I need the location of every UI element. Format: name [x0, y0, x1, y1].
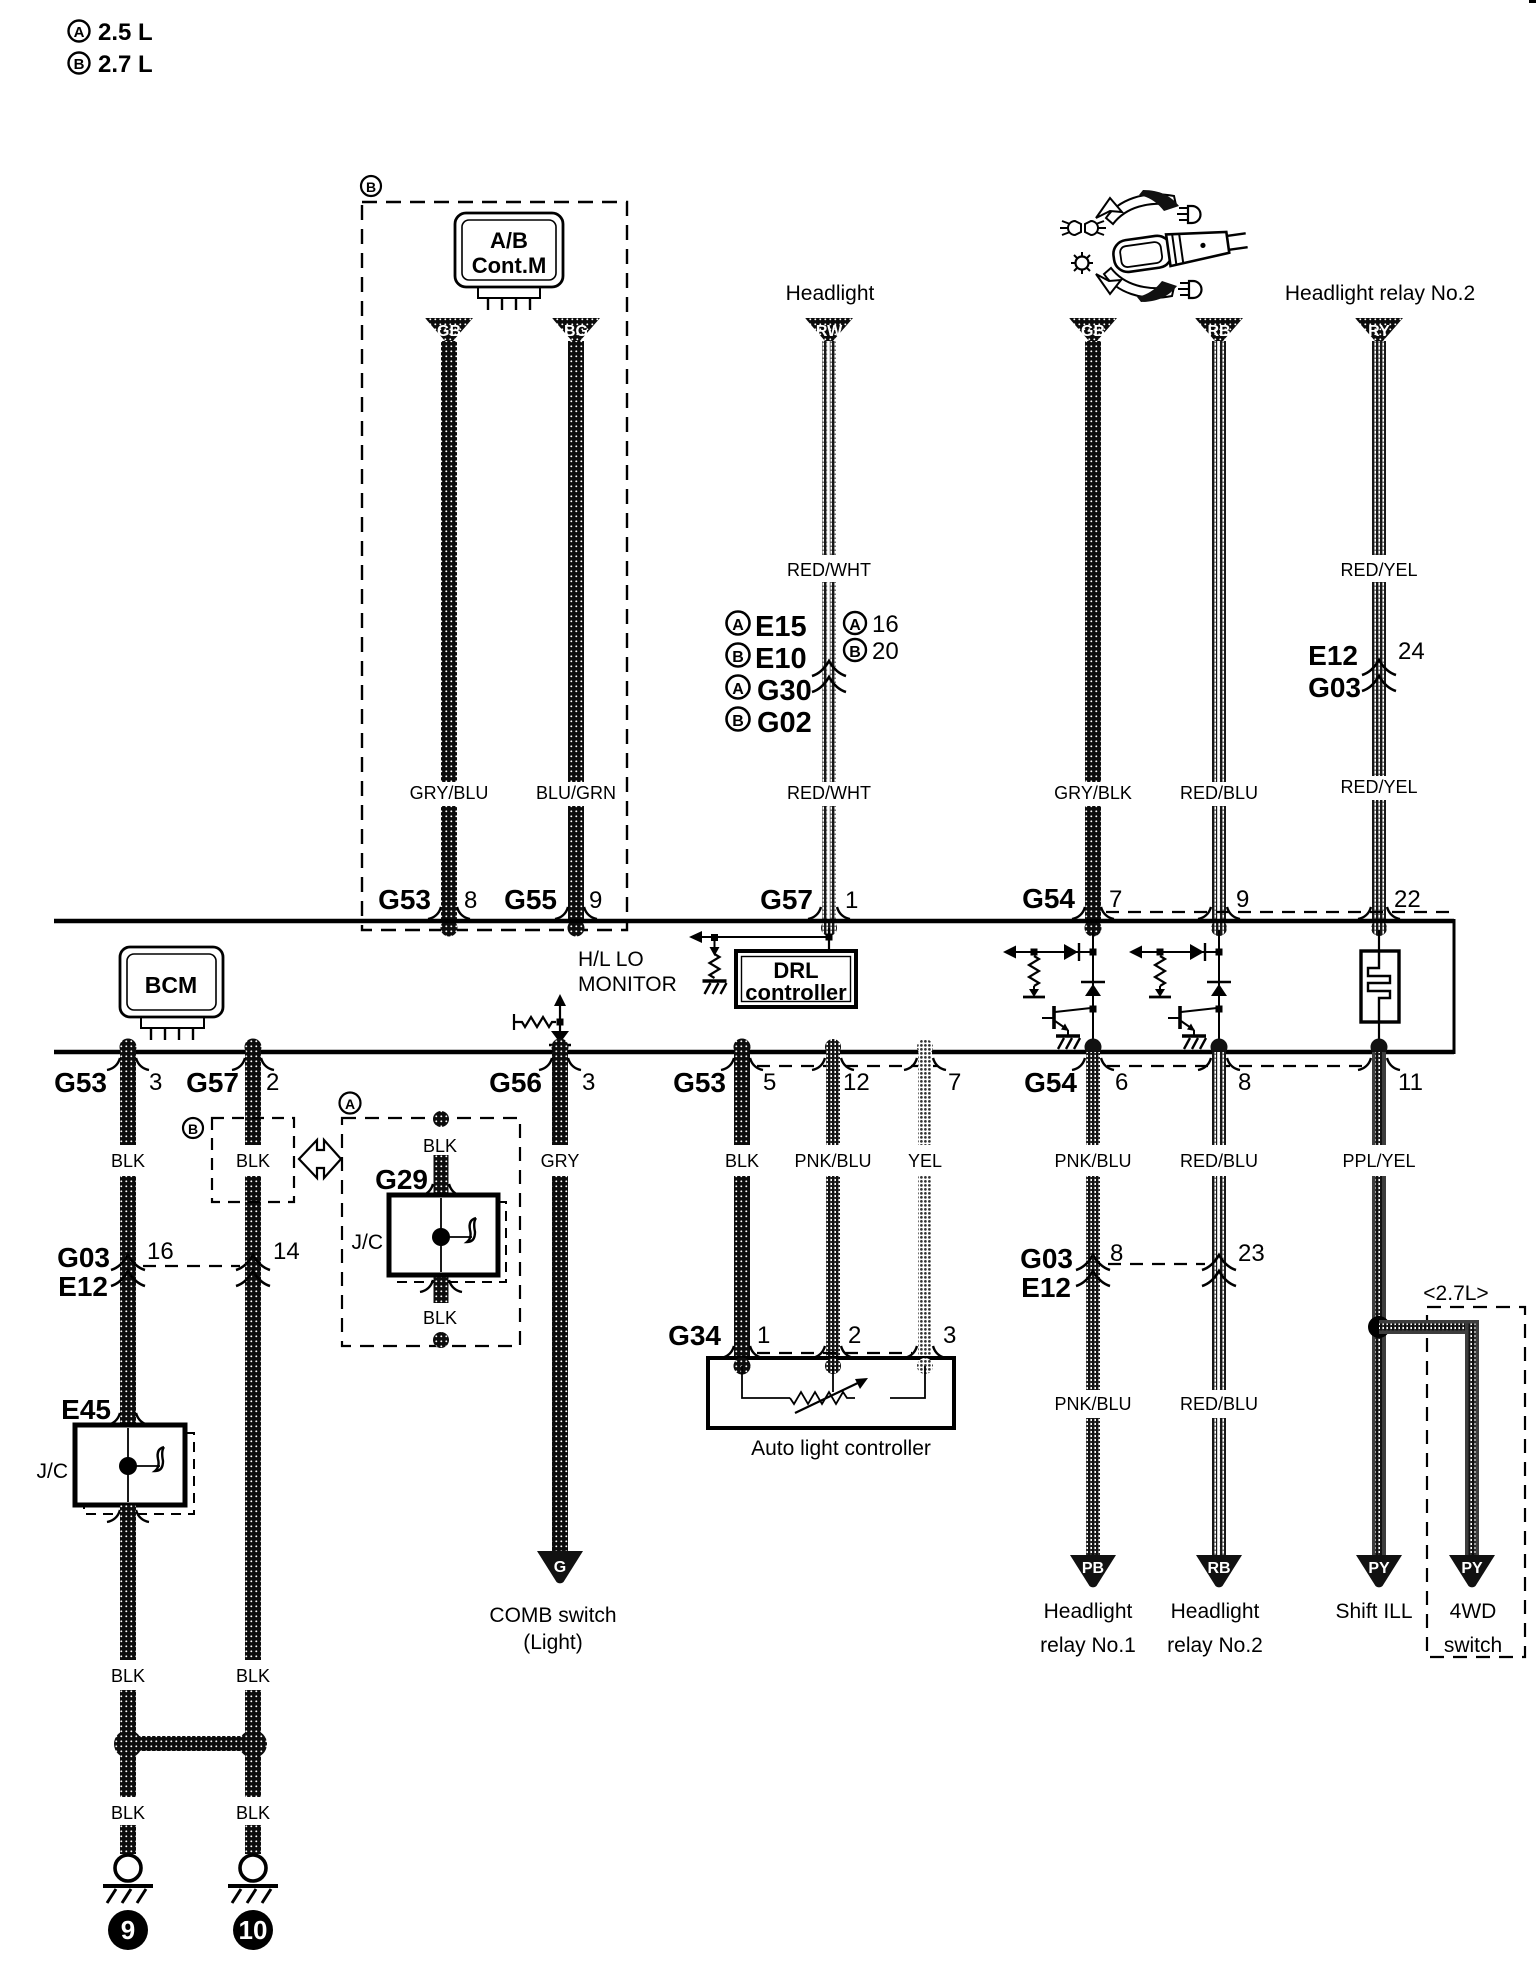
- junction: [1031, 949, 1038, 956]
- svg-text:(Light): (Light): [523, 1631, 583, 1654]
- hooks E45 entry: [107, 1413, 149, 1425]
- circle B marker: [361, 176, 381, 196]
- svg-text:G34: G34: [668, 1320, 721, 1351]
- wire GB2 (GRY/BLK) from comb switch: [1069, 318, 1117, 937]
- svg-text:Cont.M: Cont.M: [472, 253, 547, 278]
- svg-text:A: A: [345, 1096, 355, 1112]
- svg-text:B: B: [366, 179, 376, 195]
- connector ref B E10: [727, 643, 807, 675]
- svg-text:3: 3: [149, 1069, 162, 1096]
- svg-text:BLK: BLK: [725, 1151, 759, 1171]
- wire YEL pin 7: [917, 1039, 933, 1362]
- wire PPL/YEL pin 11: [1372, 1052, 1386, 1555]
- svg-text:23: 23: [1238, 1240, 1265, 1267]
- hooks E45 exit: [107, 1510, 149, 1522]
- connector ref G03/E12 with pins 16 14: [57, 1238, 300, 1302]
- svg-text:9: 9: [121, 1915, 135, 1945]
- svg-text:RY: RY: [1368, 323, 1390, 340]
- svg-text:9: 9: [1236, 886, 1249, 913]
- svg-text:YEL: YEL: [908, 1151, 942, 1171]
- dashed connector boundary G54/E12 top: [1106, 911, 1452, 913]
- wire G56 feed: [559, 1004, 561, 1052]
- svg-text:GRY/BLU: GRY/BLU: [410, 783, 489, 803]
- node G57 pin 1: [760, 884, 858, 919]
- svg-text:G: G: [554, 1559, 566, 1576]
- svg-text:RW: RW: [816, 323, 843, 340]
- svg-text:A/B: A/B: [490, 228, 528, 253]
- svg-text:B: B: [74, 56, 85, 73]
- svg-text:5: 5: [763, 1069, 776, 1096]
- wire RED/BLU G54-8: [1212, 1052, 1226, 1555]
- svg-text:GB: GB: [1081, 323, 1105, 340]
- harness chevrons wire2: [236, 1255, 270, 1286]
- wire BLK below E45: [120, 1505, 136, 1660]
- svg-text:E12: E12: [58, 1271, 108, 1302]
- node G55 pin 9: [504, 884, 602, 919]
- beam icon lower: [1189, 281, 1202, 298]
- svg-text:3: 3: [943, 1322, 956, 1349]
- wire BLK wire2 lower: [245, 1690, 261, 1797]
- branch wire to 4WD switch: [1379, 1320, 1479, 1555]
- svg-text:11: 11: [1398, 1069, 1423, 1096]
- svg-text:A: A: [732, 681, 744, 698]
- wire RY (RED/YEL) from headlight relay No.2: [1355, 318, 1403, 936]
- svg-text:G54: G54: [1024, 1067, 1077, 1098]
- connector G34 pins 1 2 3: [668, 1320, 956, 1353]
- dashed box B around BLK: [212, 1118, 294, 1202]
- bus top rail: [54, 919, 1454, 924]
- svg-text:G03: G03: [57, 1242, 110, 1273]
- svg-text:BCM: BCM: [145, 972, 197, 998]
- combination switch stalk illustration: [1060, 190, 1249, 302]
- ground point 9: [103, 1855, 153, 1950]
- svg-text:Auto light controller: Auto light controller: [751, 1437, 931, 1460]
- diode D3: [551, 1031, 569, 1043]
- wire BLK to ground 9: [120, 1825, 136, 1854]
- sun icon: [1076, 257, 1089, 270]
- ground: [1056, 1036, 1080, 1049]
- wire BLK G53-3 (left) upper: [120, 1039, 137, 1425]
- node G54 pin 7: [1022, 883, 1122, 919]
- svg-text:24: 24: [1398, 638, 1425, 665]
- junction connector G29 J/C: [352, 1195, 507, 1282]
- monitor sense branch: arrow, resistor R, ground: [689, 931, 829, 994]
- svg-text:PPL/YEL: PPL/YEL: [1342, 1151, 1415, 1171]
- svg-text:PNK/BLU: PNK/BLU: [1054, 1151, 1131, 1171]
- svg-text:12: 12: [843, 1069, 870, 1096]
- module auto light controller: [708, 1358, 954, 1461]
- wire relay output: [1092, 930, 1094, 1048]
- resistor R1: [1029, 956, 1039, 986]
- connector ref G03/E12 pins 8 23: [1020, 1240, 1265, 1303]
- svg-text:14: 14: [273, 1238, 300, 1265]
- connector ref B G02: [727, 707, 812, 739]
- svg-text:GRY: GRY: [541, 1151, 580, 1171]
- svg-text:1: 1: [845, 887, 858, 914]
- svg-text:3: 3: [582, 1069, 595, 1096]
- svg-text:16: 16: [147, 1238, 174, 1265]
- svg-text:PB: PB: [1082, 1560, 1104, 1577]
- svg-text:BLK: BLK: [236, 1803, 270, 1823]
- svg-text:RB: RB: [1207, 323, 1230, 340]
- svg-text:E15: E15: [755, 611, 807, 643]
- svg-text:9: 9: [589, 887, 602, 914]
- dashed box A around G29 J/C: [342, 1118, 520, 1346]
- wire monitor tap: [691, 936, 829, 938]
- relay driver circuit 1 (headlight relay No.1): [1003, 930, 1105, 1056]
- svg-text:RED/YEL: RED/YEL: [1340, 777, 1417, 797]
- svg-text:10: 10: [239, 1915, 268, 1945]
- svg-text:Headlight: Headlight: [786, 282, 875, 305]
- svg-text:RED/BLU: RED/BLU: [1180, 1394, 1258, 1414]
- svg-text:PY: PY: [1368, 1560, 1390, 1577]
- svg-text:2.5 L: 2.5 L: [98, 19, 153, 46]
- svg-text:2.7 L: 2.7 L: [98, 51, 153, 78]
- svg-text:B: B: [732, 649, 744, 666]
- svg-text:controller: controller: [745, 980, 847, 1005]
- G56 pull-up: arrow, resistor, diode: [514, 994, 571, 1052]
- svg-text:RED/WHT: RED/WHT: [787, 783, 871, 803]
- svg-text:G03: G03: [1308, 672, 1361, 703]
- svg-text:G02: G02: [757, 707, 812, 739]
- branch junction on PPL/YEL: [1368, 1316, 1390, 1338]
- dashed boundary G53 row: [757, 1065, 938, 1067]
- svg-text:22: 22: [1394, 886, 1421, 913]
- wire RW (RED/WHT) from Headlight: [805, 318, 853, 936]
- junction: [711, 934, 718, 941]
- svg-text:G55: G55: [504, 884, 557, 915]
- svg-text:relay No.2: relay No.2: [1167, 1634, 1263, 1657]
- svg-text:BLU/GRN: BLU/GRN: [536, 783, 616, 803]
- dashed boundary G54 row: [1107, 1065, 1365, 1067]
- wire GB (GRY/BLU) from A/B Cont.M: [425, 318, 473, 937]
- destination arrow PB headlight relay No.1: [1040, 1555, 1136, 1657]
- svg-text:PNK/BLU: PNK/BLU: [1054, 1394, 1131, 1414]
- wire BLK G57-2 upper: [245, 1039, 262, 1661]
- svg-text:8: 8: [464, 887, 477, 914]
- connector ref A G30: [727, 675, 812, 707]
- svg-text:20: 20: [872, 638, 899, 665]
- relay driver circuit 2 (headlight relay No.2): [1129, 930, 1231, 1056]
- svg-text:J/C: J/C: [37, 1460, 69, 1483]
- svg-text:4WD: 4WD: [1450, 1600, 1497, 1623]
- svg-text:G29: G29: [375, 1164, 428, 1195]
- svg-text:G54: G54: [1022, 883, 1075, 914]
- label H/L LO MONITOR: [578, 948, 677, 996]
- page corner mark: [1529, 0, 1536, 3]
- resistor G56 pull-up: [513, 1014, 515, 1030]
- svg-text:E12: E12: [1021, 1272, 1071, 1303]
- svg-text:G53: G53: [673, 1067, 726, 1098]
- svg-text:PY: PY: [1461, 1560, 1483, 1577]
- tie crossbar between grounds: [114, 1730, 267, 1758]
- svg-text:GB: GB: [437, 323, 461, 340]
- ground: [703, 981, 727, 994]
- hooks G29 entry: [420, 1184, 462, 1196]
- svg-text:G56: G56: [489, 1067, 542, 1098]
- connector ref A E15: [727, 611, 807, 643]
- svg-text:Headlight: Headlight: [1044, 1600, 1133, 1623]
- svg-text:B: B: [849, 644, 861, 661]
- wire PNK/BLU pin 12: [825, 1039, 841, 1362]
- svg-text:J/C: J/C: [352, 1231, 384, 1254]
- destination arrow PY shift ILL: [1335, 1555, 1412, 1623]
- node G54 pin 9: [1198, 886, 1249, 919]
- node G57 pin 2: [186, 1067, 279, 1098]
- svg-text:G30: G30: [757, 675, 812, 707]
- junction node G54-6: [1085, 1039, 1102, 1056]
- svg-text:BLK: BLK: [111, 1666, 145, 1686]
- svg-text:16: 16: [872, 611, 899, 638]
- destination arrow PY 4WD switch: [1444, 1555, 1502, 1657]
- junction connector E45 J/C: [37, 1425, 195, 1514]
- svg-text:1: 1: [757, 1322, 770, 1349]
- junction: [1090, 1006, 1097, 1013]
- wire RB (RED/BLU) from comb switch: [1195, 318, 1243, 936]
- legend circle A 2.5 L: [69, 19, 153, 46]
- ground point 10: [228, 1855, 278, 1950]
- G29 bottom stub wire BLK: [433, 1277, 449, 1348]
- svg-text:RB: RB: [1207, 1560, 1230, 1577]
- resistor monitor pull-down: [710, 954, 720, 978]
- junction: [557, 1019, 564, 1026]
- node G56 pin 3: [489, 1067, 595, 1098]
- svg-text:H/L LO: H/L LO: [578, 948, 644, 971]
- dashed enclosure B: [362, 202, 627, 930]
- svg-text:6: 6: [1115, 1069, 1128, 1096]
- connector ref E12 / G03 with pin 24: [1308, 638, 1425, 703]
- svg-text:E10: E10: [755, 643, 807, 675]
- svg-text:relay No.1: relay No.1: [1040, 1634, 1136, 1657]
- svg-text:GRY/BLK: GRY/BLK: [1054, 783, 1132, 803]
- module DRL controller: [736, 951, 856, 1007]
- destination arrow RB headlight relay No.2: [1167, 1555, 1263, 1657]
- svg-text:A: A: [732, 617, 744, 634]
- svg-text:<2.7L>: <2.7L>: [1423, 1282, 1488, 1305]
- diode D1: [1064, 944, 1078, 960]
- hooks G57-2: [232, 1058, 274, 1070]
- hooks G56-3: [539, 1058, 581, 1070]
- svg-text:A: A: [849, 617, 861, 634]
- svg-text:G57: G57: [186, 1067, 239, 1098]
- svg-text:B: B: [188, 1121, 198, 1137]
- bus bottom rail: [54, 1050, 1454, 1055]
- svg-text:G53: G53: [378, 884, 431, 915]
- wire PNK/BLU G54-6: [1086, 1052, 1100, 1555]
- svg-text:Headlight relay No.2: Headlight relay No.2: [1285, 282, 1475, 305]
- diode D2 clamp: [1081, 981, 1105, 983]
- hooks G29 exit: [420, 1280, 462, 1292]
- svg-text:RED/BLU: RED/BLU: [1180, 783, 1258, 803]
- svg-text:2: 2: [848, 1322, 861, 1349]
- svg-text:PNK/BLU: PNK/BLU: [794, 1151, 871, 1171]
- svg-text:MONITOR: MONITOR: [578, 973, 677, 996]
- wire BG (BLU/GRN) from A/B Cont.M: [552, 318, 600, 937]
- svg-text:E45: E45: [61, 1394, 111, 1425]
- destination arrow G to COMB switch: [489, 1551, 616, 1654]
- node G54 pin 6: [1024, 1067, 1128, 1098]
- legend circle B 2.7 L: [69, 51, 153, 78]
- svg-text:switch: switch: [1444, 1634, 1502, 1657]
- svg-text:BLK: BLK: [236, 1151, 270, 1171]
- svg-text:BLK: BLK: [111, 1151, 145, 1171]
- svg-text:COMB switch: COMB switch: [489, 1604, 616, 1627]
- svg-text:G53: G53: [54, 1067, 107, 1098]
- pin ref A 16: [844, 611, 899, 638]
- svg-text:RED/YEL: RED/YEL: [1340, 560, 1417, 580]
- harness chevrons wire1: [111, 1255, 145, 1286]
- svg-text:2: 2: [266, 1069, 279, 1096]
- svg-text:BLK: BLK: [423, 1136, 457, 1156]
- svg-text:G03: G03: [1020, 1243, 1073, 1274]
- transistor Q1: [1052, 1006, 1056, 1029]
- beam icon upper: [1188, 206, 1201, 223]
- G29 top stub wire BLK: [433, 1111, 449, 1195]
- svg-text:8: 8: [1238, 1069, 1251, 1096]
- circle B marker: [183, 1118, 203, 1138]
- svg-text:Shift ILL: Shift ILL: [1335, 1600, 1412, 1623]
- bus right edge: [1453, 919, 1456, 1054]
- wire BLK G53-5: [734, 1039, 751, 1363]
- svg-text:B: B: [732, 713, 744, 730]
- hooks G53-3: [107, 1058, 149, 1070]
- svg-text:Headlight: Headlight: [1171, 1600, 1260, 1623]
- svg-text:7: 7: [948, 1069, 961, 1096]
- svg-text:7: 7: [1109, 886, 1122, 913]
- junction: [1090, 949, 1097, 956]
- lever body: [1112, 223, 1249, 273]
- circle A marker: [340, 1093, 361, 1114]
- wire drive line: [1005, 951, 1093, 953]
- svg-text:E12: E12: [1308, 640, 1358, 671]
- svg-text:RED/WHT: RED/WHT: [787, 560, 871, 580]
- module U A/B Cont.M: [455, 213, 563, 310]
- svg-text:A: A: [74, 24, 85, 41]
- wire BLK to ground 10: [245, 1825, 261, 1854]
- wire BLK wire1 lower: [120, 1690, 136, 1797]
- pin ref B 20: [844, 638, 899, 665]
- svg-text:BG: BG: [564, 323, 588, 340]
- module BCM: [120, 947, 223, 1040]
- svg-text:BLK: BLK: [423, 1308, 457, 1328]
- illumination resistor element (shift ILL feed): [1361, 930, 1399, 1056]
- lamp icon: [1068, 221, 1098, 235]
- equivalence double arrow: [299, 1140, 341, 1178]
- harness chevrons on RY wire: [1362, 660, 1396, 691]
- svg-text:BLK: BLK: [111, 1803, 145, 1823]
- node E12 pin 22: [1358, 886, 1421, 919]
- svg-text:G57: G57: [760, 884, 813, 915]
- node G53 pin 5: [673, 1067, 776, 1098]
- node G53 pin 8: [378, 884, 477, 919]
- svg-text:RED/BLU: RED/BLU: [1180, 1151, 1258, 1171]
- svg-text:BLK: BLK: [236, 1666, 270, 1686]
- node G53 pin 3: [54, 1067, 162, 1098]
- wire from G57-1 to DRL controller: [826, 928, 833, 951]
- dashed box 4WD switch: [1427, 1307, 1525, 1657]
- harness chevrons on RW wire: [812, 661, 846, 692]
- wire GRY G56-3: [552, 1039, 569, 1552]
